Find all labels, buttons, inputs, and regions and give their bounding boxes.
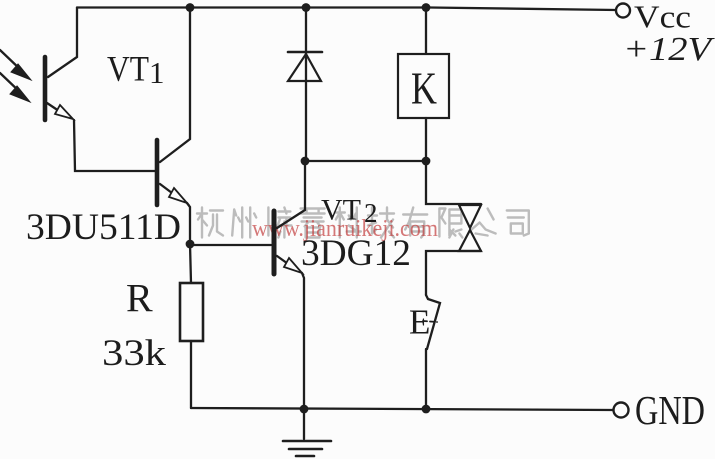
svg-text:VT: VT (107, 49, 149, 89)
transistor VT1 photo base bar (43, 57, 48, 120)
transistor Q2 base bar (155, 140, 160, 205)
svg-text:GND: GND (635, 387, 705, 433)
junction dot rail x426 (422, 3, 431, 12)
wire VT1 emitter to Q2 base (74, 120, 155, 171)
switch E dashes (423, 321, 437, 322)
wire VT1 collector drop (48, 8, 77, 78)
wire node to resistor (190, 244, 191, 283)
wire node to VT2 base (190, 244, 271, 246)
transistor VT2 emitter (open arrow) (277, 256, 302, 273)
junction dot bottom 426,409 (422, 405, 431, 414)
junction dot rail x306 (302, 3, 311, 12)
transistor VT2 base bar (272, 211, 277, 274)
transistor Q2 collector (160, 8, 190, 163)
wire node to VT2 collector (277, 161, 305, 228)
wire hourglass bottom (426, 251, 481, 295)
watermark (197, 208, 529, 238)
svg-text:VT: VT (321, 194, 361, 227)
wire K to node (425, 118, 427, 161)
wire Q2 emitter down to node (187, 203, 190, 244)
switch E blade (426, 295, 440, 349)
junction dot bottom 304,409 (300, 405, 309, 414)
transistor Q2 emitter (open arrow) (160, 184, 187, 203)
svg-text:33k: 33k (102, 333, 167, 374)
wire bottom rail (191, 408, 613, 410)
light arrow 1 (0, 50, 31, 80)
svg-text:K: K (411, 63, 437, 114)
diode D cathode bar (288, 51, 322, 54)
svg-text:Vcc: Vcc (634, 0, 691, 35)
svg-text:E: E (409, 303, 430, 342)
svg-text:1: 1 (149, 55, 165, 90)
svg-text:3DG12: 3DG12 (301, 233, 411, 274)
ground bar 2 (289, 448, 322, 451)
junction dot node 426,161 (422, 157, 431, 166)
ground bar 3 (296, 455, 314, 458)
wire top rail (77, 8, 616, 11)
relay K box (398, 54, 449, 118)
junction dot node 190,244 (186, 240, 195, 249)
ground stub (303, 410, 305, 439)
junction dot node 305,161 (301, 157, 310, 166)
hourglass triangle top (459, 205, 481, 228)
terminal Vcc circle (616, 4, 630, 18)
wire node to hourglass top (426, 161, 481, 204)
svg-text:2: 2 (364, 198, 378, 228)
transistor VT1 emitter (open arrow) (47, 103, 73, 119)
wire node161 horizontal (305, 160, 426, 162)
svg-text:+12V: +12V (623, 31, 715, 68)
wire rail to relay K (425, 8, 427, 55)
ground bar 1 (283, 440, 331, 443)
wire VT2 emitter to bottom rail (302, 273, 304, 409)
diode D triangle (288, 54, 321, 81)
svg-text:R: R (126, 276, 153, 321)
junction dot rail x190 (186, 3, 195, 12)
wire resistor to bottom rail (190, 341, 192, 408)
terminal GND circle (614, 403, 629, 418)
light arrow 2 (0, 73, 30, 102)
hourglass triangle bottom (459, 230, 481, 251)
diode D top wire (305, 8, 307, 162)
resistor R body (180, 283, 203, 341)
svg-text:3DU511D: 3DU511D (26, 207, 181, 248)
wire switch to bottom rail (425, 349, 427, 409)
